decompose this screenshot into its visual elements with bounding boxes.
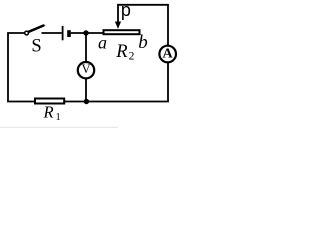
svg-text:A: A bbox=[162, 47, 173, 62]
slider arrow head bbox=[115, 22, 121, 29]
faint artifact line at bottom bbox=[0, 126, 118, 128]
ammeter A circle bbox=[159, 46, 176, 63]
switch S pivot bbox=[25, 31, 29, 35]
battery long plate (+) bbox=[62, 26, 64, 40]
svg-text:R: R bbox=[43, 103, 54, 122]
svg-text:1: 1 bbox=[56, 112, 61, 123]
svg-text:V: V bbox=[81, 62, 90, 76]
voltmeter V circle bbox=[78, 62, 94, 78]
node: junction dot bottom (voltmeter tap) bbox=[84, 99, 89, 104]
wire: switch to battery bbox=[42, 32, 62, 34]
wire: battery to rheostat terminal a bbox=[71, 32, 103, 34]
resistor R1 body bbox=[35, 99, 64, 104]
switch S blade bbox=[29, 26, 44, 32]
wire: voltmeter branch upper bbox=[85, 33, 87, 62]
svg-text:2: 2 bbox=[129, 50, 135, 62]
rheostat R2 body bbox=[104, 30, 140, 34]
wire: left loop (top-left corner, left side, bottom-left run) bbox=[8, 33, 35, 102]
svg-text:p: p bbox=[121, 0, 131, 20]
wire: slider riser and top run to right side bbox=[118, 5, 168, 46]
svg-text:S: S bbox=[31, 36, 41, 56]
battery short plate (-) bbox=[67, 30, 71, 37]
svg-text:R: R bbox=[115, 42, 127, 62]
svg-text:a: a bbox=[98, 32, 107, 52]
wire: right side lower and bottom run bbox=[65, 63, 169, 102]
svg-text:b: b bbox=[138, 32, 148, 53]
wire: voltmeter branch lower bbox=[85, 79, 87, 102]
node: junction dot top (voltmeter tap) bbox=[83, 30, 88, 35]
